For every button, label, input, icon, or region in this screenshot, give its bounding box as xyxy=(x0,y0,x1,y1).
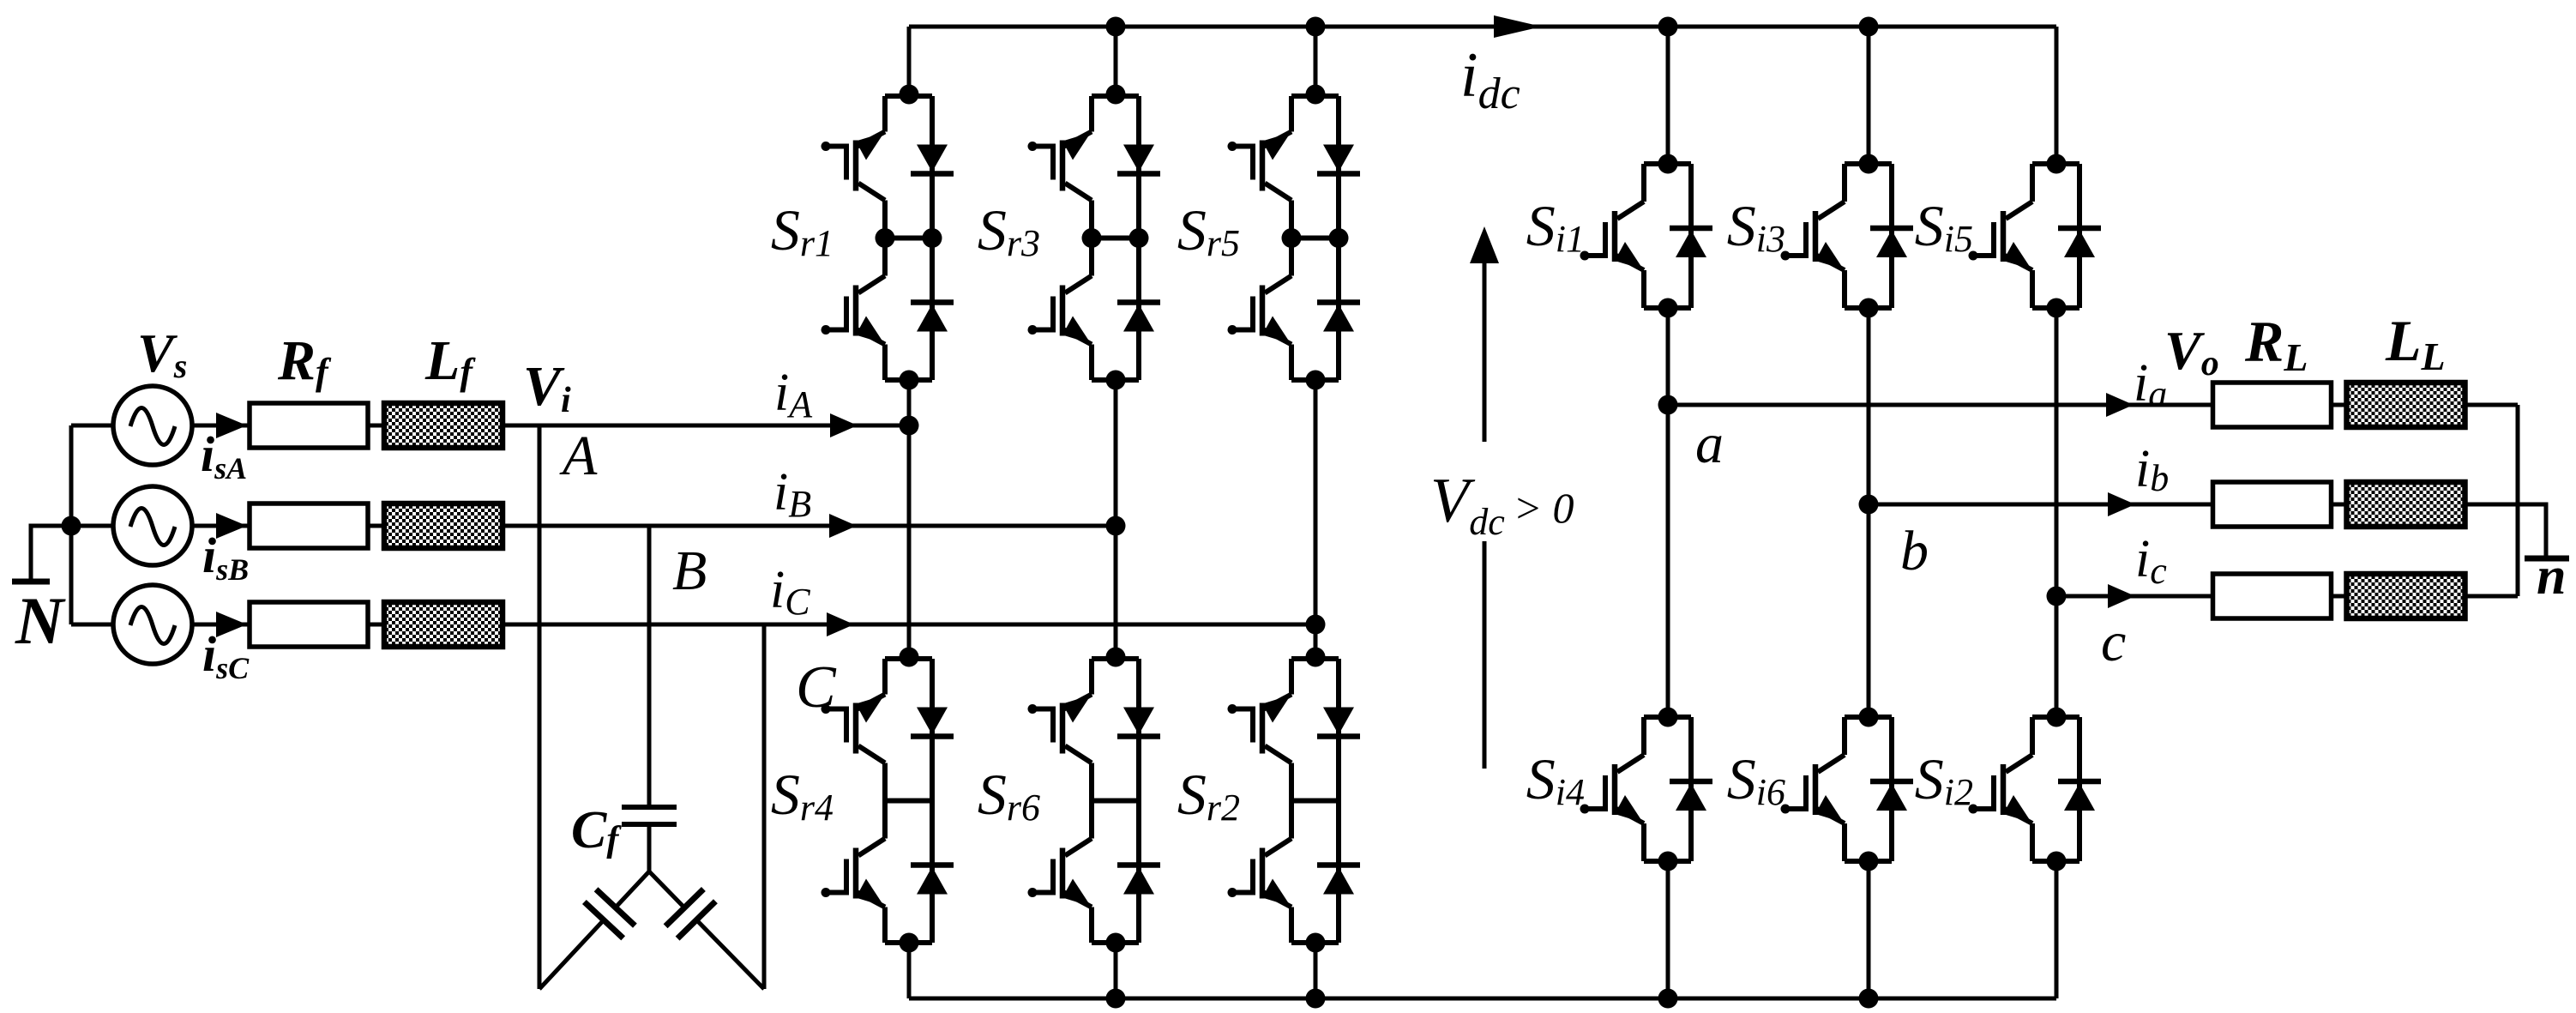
node Sr3 middle right xyxy=(1129,228,1149,248)
arrow isB xyxy=(216,513,247,539)
wire left bus vertical xyxy=(69,425,74,624)
node bottom bus Si6 xyxy=(1859,989,1879,1009)
capacitor Cf left diagonal plate 2 xyxy=(584,902,623,938)
wire bottom bus stub Si2 xyxy=(2055,859,2059,998)
node bottom bus Sr6 xyxy=(1106,989,1126,1009)
wire top bus drop Si3 xyxy=(1867,27,1871,166)
node Sr1 middle left xyxy=(876,228,895,248)
wire Rf-Lf phase A xyxy=(367,424,384,428)
wire Rf-Lf phase B xyxy=(367,524,384,528)
wire bottom bus stub Si4 xyxy=(1666,859,1670,998)
resistor Rf phase C xyxy=(250,602,368,647)
resistor RL phase a xyxy=(2213,383,2332,427)
switch Si6 IGBT with diode xyxy=(1781,708,1914,871)
inductor LL phase b xyxy=(2347,482,2465,527)
wire bottom bus stub Sr2 xyxy=(1314,941,1318,998)
node Sr5 middle right xyxy=(1329,228,1349,248)
wire inverter leg b xyxy=(1867,308,1871,719)
node bottom bus Si4 xyxy=(1658,989,1678,1009)
wire top bus stub Sr3 xyxy=(1114,27,1118,98)
arrow idc xyxy=(1494,15,1542,38)
node phase c xyxy=(2047,587,2067,606)
wire right load bus xyxy=(2516,405,2520,596)
resistor RL phase b xyxy=(2213,482,2332,527)
wire delta diagonal left diagonal lower xyxy=(539,920,604,989)
inductor LL phase c xyxy=(2347,574,2465,618)
node Sr5 middle left xyxy=(1282,228,1302,248)
wire phase a to load xyxy=(1668,403,2212,407)
wire rectifier leg C xyxy=(1314,380,1318,660)
svg-text:N: N xyxy=(15,583,66,658)
wire top DC bus xyxy=(909,25,2056,29)
switch Si5 IGBT with diode xyxy=(1969,154,2102,318)
node top bus Sr5 xyxy=(1306,17,1326,37)
wire bottom bus stub Si6 xyxy=(1867,859,1871,998)
wire source C to Rf xyxy=(191,623,250,627)
switch Sr2 bidirectional xyxy=(1228,648,1361,953)
switch Si4 IGBT with diode xyxy=(1580,708,1713,871)
capacitor Cf phase B bottom plate xyxy=(622,822,677,827)
wire top bus drop Si1 xyxy=(1666,27,1670,166)
wire phase C tap down xyxy=(762,624,767,989)
arrow Vdc upward xyxy=(1483,257,1487,442)
wire row C to rectifier xyxy=(503,623,1315,627)
wire RL-LL phase a xyxy=(2332,403,2346,407)
wire Vdc arrow lower segment xyxy=(1483,541,1487,769)
switch Si3 IGBT with diode xyxy=(1781,154,1914,318)
wire phase B tap down xyxy=(647,526,652,807)
wire Rf-Lf phase C xyxy=(367,623,384,627)
inductor Lf phase B xyxy=(384,503,503,548)
switch Si2 IGBT with diode xyxy=(1969,708,2102,871)
wire delta diagonal left diagonal upper xyxy=(616,871,649,907)
node top bus Si1 xyxy=(1658,17,1678,37)
wire delta diagonal right diagonal upper xyxy=(649,871,684,907)
wire phase c to load xyxy=(2056,594,2212,599)
wire bottom bus stub Sr4 xyxy=(907,941,912,998)
wire top bus drop Si5 xyxy=(2055,27,2059,166)
svg-text:n: n xyxy=(2537,547,2566,606)
arrow iA xyxy=(830,413,858,437)
node top bus Si3 xyxy=(1859,17,1879,37)
svg-text:A: A xyxy=(559,425,598,487)
resistor Rf phase B xyxy=(250,503,368,548)
capacitor Cf right diagonal plate 1 xyxy=(665,889,703,926)
resistor Rf phase A xyxy=(250,403,368,448)
wire neutral stub to N xyxy=(31,526,71,580)
wire rectifier leg A xyxy=(907,380,912,660)
wire inverter leg a xyxy=(1666,308,1670,719)
capacitor Cf phase B top plate xyxy=(622,805,677,810)
node Sr3 middle left xyxy=(1082,228,1102,248)
arrow iB xyxy=(829,514,857,538)
wire LL phase a to bus xyxy=(2465,403,2518,407)
node phase A at rectifier xyxy=(900,416,919,436)
node phase b xyxy=(1859,495,1879,515)
svg-text:B: B xyxy=(672,540,707,602)
inductor LL phase a xyxy=(2347,383,2465,427)
arrow isC xyxy=(216,612,247,637)
wire bottom DC bus xyxy=(909,997,2056,1001)
switch Sr4 bidirectional xyxy=(822,648,954,953)
wire row B to rectifier xyxy=(503,524,1116,528)
wire phase A tap down xyxy=(538,425,542,989)
switch Sr1 bidirectional xyxy=(822,85,954,390)
node phase C at rectifier xyxy=(1306,615,1326,635)
svg-text:c: c xyxy=(2101,611,2126,673)
source phase B xyxy=(113,486,192,565)
inductor Lf phase C xyxy=(384,602,503,647)
wire row C source stub xyxy=(71,623,114,627)
source Vs phase A xyxy=(113,386,192,465)
wire source A to Rf xyxy=(191,424,250,428)
wire row B source stub xyxy=(71,524,114,528)
node Sr1 middle right xyxy=(923,228,942,248)
ground N bar xyxy=(12,579,50,585)
wire LL phase b to bus xyxy=(2465,503,2518,507)
wire row A to rectifier xyxy=(503,424,909,428)
arrow ib xyxy=(2108,492,2135,516)
wire inverter leg c xyxy=(2055,308,2059,719)
wire RL-LL phase c xyxy=(2332,594,2346,599)
wire phase b to load xyxy=(1869,503,2212,507)
switch Sr5 bidirectional xyxy=(1228,85,1361,390)
wire neutral stub to n xyxy=(2518,504,2546,556)
wire row A source stub xyxy=(71,424,114,428)
inductor Lf phase A xyxy=(384,403,503,448)
wire RL-LL phase b xyxy=(2332,503,2346,507)
switch Sr6 bidirectional xyxy=(1028,648,1161,953)
svg-text:a: a xyxy=(1695,413,1724,475)
wire bottom bus stub Sr6 xyxy=(1114,941,1118,998)
arrow iC xyxy=(827,612,854,636)
node phase a xyxy=(1658,395,1678,415)
capacitor Cf right diagonal plate 2 xyxy=(677,901,715,938)
arrow isA xyxy=(216,413,247,438)
wire top bus stub Sr1 xyxy=(907,27,912,98)
ground n bar xyxy=(2525,556,2569,562)
capacitor Cf left diagonal plate 1 xyxy=(596,889,635,926)
node bottom bus Sr2 xyxy=(1306,989,1326,1009)
resistor RL phase c xyxy=(2213,574,2332,618)
node top bus Sr3 xyxy=(1106,17,1126,37)
svg-text:b: b xyxy=(1900,520,1929,582)
arrow ia xyxy=(2106,393,2134,417)
wire LL phase c to bus xyxy=(2465,594,2518,599)
source phase C xyxy=(113,585,192,664)
wire source B to Rf xyxy=(191,524,250,528)
wire rectifier leg B xyxy=(1114,380,1118,660)
wire delta diagonal right diagonal lower xyxy=(696,920,764,990)
wire top bus stub Sr5 xyxy=(1314,27,1318,98)
switch Sr3 bidirectional xyxy=(1028,85,1161,390)
wire cap B to delta vertex xyxy=(647,824,652,871)
switch Si1 IGBT with diode xyxy=(1580,154,1713,318)
node phase B at rectifier xyxy=(1106,516,1126,536)
node left bus junction xyxy=(62,516,81,536)
arrow ic xyxy=(2108,584,2135,608)
